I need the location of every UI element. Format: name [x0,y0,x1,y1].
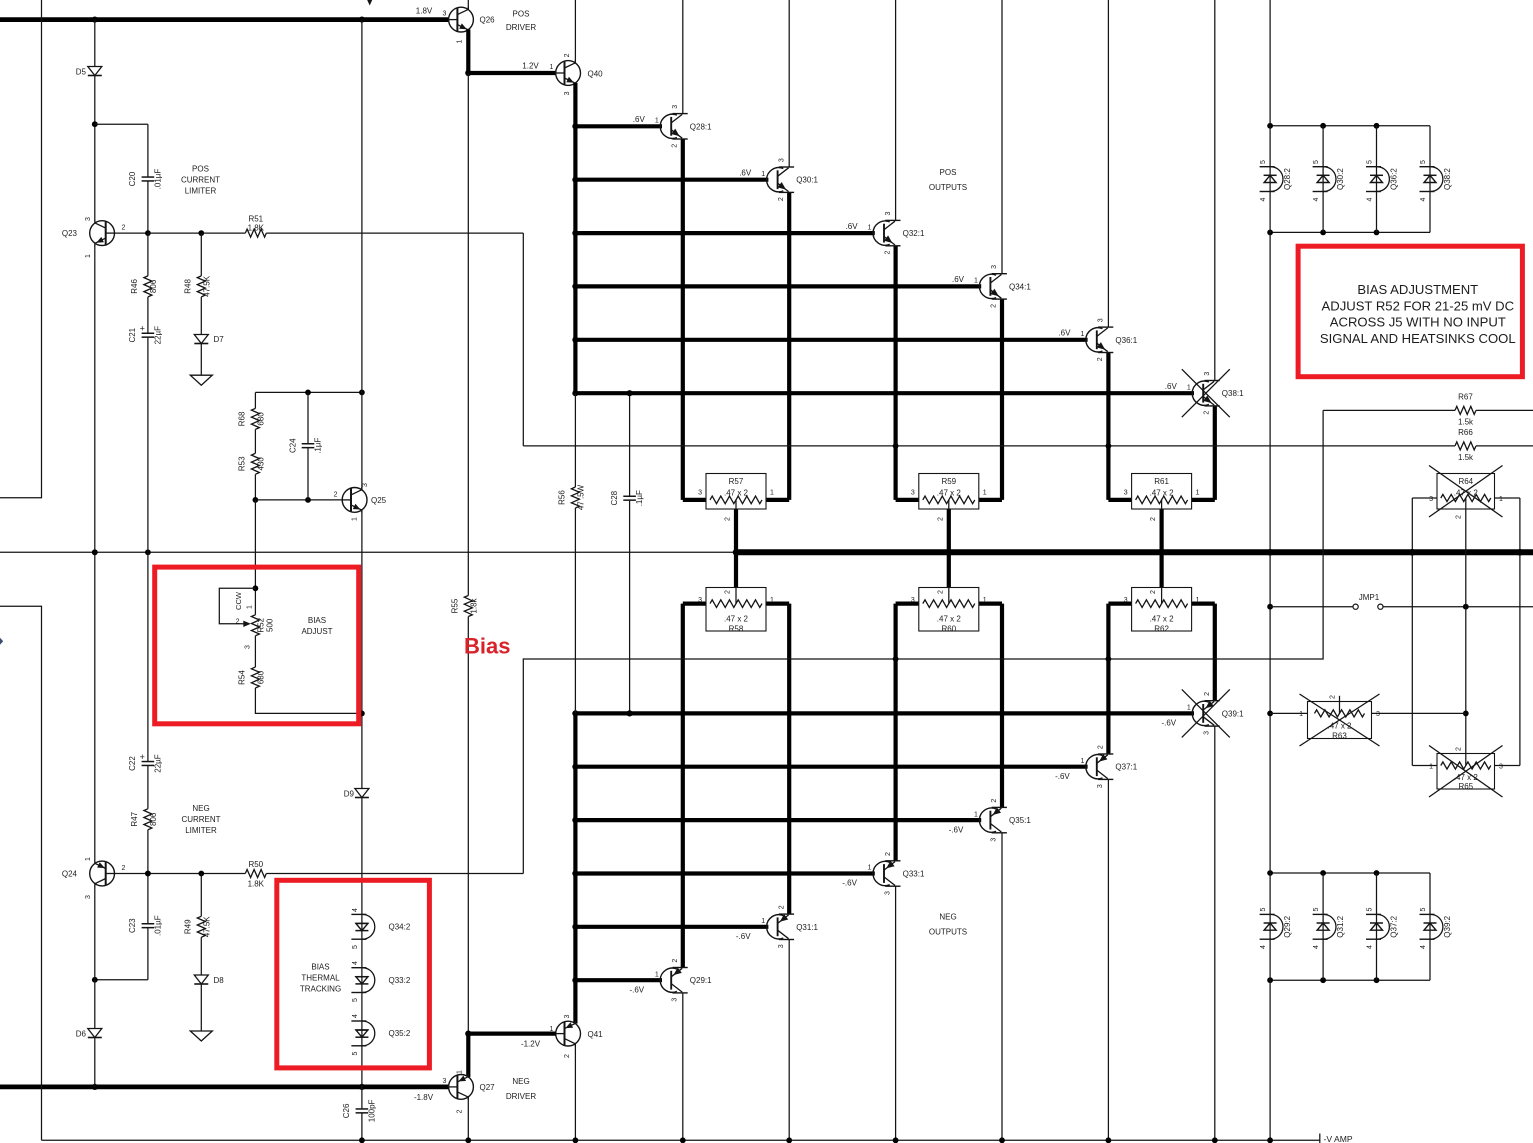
wire output node mid line (thin left part) [0,551,736,553]
svg-text:.1µF: .1µF [635,490,644,506]
thermal diode Q30:2 [1313,166,1328,168]
wire Q39:1 collector column to -V AMP line [1214,726,1216,1140]
svg-text:R67: R67 [1458,392,1473,401]
junction dot at R48 node [198,230,204,236]
wire R48 node to R51 [201,232,523,234]
wire C23 elbow to Q24 emitter column [95,979,148,981]
wire C20 top drop [147,124,149,233]
ground below D7 [190,375,212,385]
svg-text:.6V: .6V [739,168,752,177]
wire left boundary vertical lower (from off-page) [0,606,42,1140]
svg-text:SIGNAL AND HEATSINKS COOL: SIGNAL AND HEATSINKS COOL [1320,331,1516,346]
svg-text:Q28:1: Q28:1 [690,122,712,131]
wire R54 bottom to Q25 emitter column [255,688,362,713]
svg-text:D9: D9 [344,790,355,799]
svg-text:1: 1 [1196,489,1200,496]
svg-text:.1µF: .1µF [314,438,323,454]
svg-text:C21: C21 [128,327,137,342]
wire +V top supply bus [0,17,449,22]
resistor R56 47 .5W [570,487,581,508]
junction dot feeder rung 5 [572,337,578,343]
svg-text:5: 5 [1367,160,1374,164]
svg-text:R66: R66 [1458,428,1473,437]
wire Q37:1 emitter rise [1106,604,1110,754]
svg-text:1: 1 [1187,384,1191,391]
junction dot R64 right frame at output bus [1517,549,1524,556]
svg-text:2: 2 [1455,515,1462,519]
svg-text:.6V: .6V [846,222,859,231]
resistor R53 430 [250,453,261,474]
junction dot R67 sense on Q37:1 emitter column [1106,656,1112,662]
svg-text:5: 5 [1260,907,1267,911]
svg-text:R49: R49 [183,919,192,934]
svg-text:Q39:2: Q39:2 [1443,915,1452,937]
svg-text:2: 2 [778,905,785,909]
svg-text:Q27: Q27 [480,1083,496,1092]
capacitor C20 [145,177,151,182]
red box bias adjustment instructions [1298,246,1522,377]
junction dot C24 bottom [305,497,311,503]
svg-text:1: 1 [655,971,659,978]
svg-text:R50: R50 [248,860,263,869]
wire R66 sense line from R51 loop to right edge [523,445,1533,447]
junction dot NEG feeder rung 5 [572,764,578,770]
svg-text:D8: D8 [214,976,225,985]
svg-text:NEG: NEG [939,912,956,921]
diode D6 [88,1029,102,1038]
svg-text:ADJUST: ADJUST [301,627,332,636]
svg-text:.6V: .6V [633,115,646,124]
svg-text:4: 4 [1367,197,1374,201]
capacitor C24 .1uF column [307,392,309,500]
wire Q30:1 emitter drop [787,192,791,500]
wire column for Q29:2 [1269,873,1271,980]
wire base node to R48 node [148,232,201,234]
svg-text:3: 3 [85,895,92,899]
svg-text:1: 1 [770,489,774,496]
wire top resistor 0 center tap to output bus [734,504,738,552]
junction dot feeder rung 3 [572,230,578,236]
svg-text:4: 4 [1420,945,1427,949]
svg-text:R62: R62 [1154,624,1169,633]
svg-text:R54: R54 [237,670,246,685]
wire R48/D7 column [200,233,202,375]
svg-text:Q36:2: Q36:2 [1390,168,1399,190]
junction dot sense on Q36:1 emitter column [1106,443,1112,449]
svg-text:-.6V: -.6V [949,825,964,834]
svg-text:Q33:2: Q33:2 [389,976,411,985]
svg-text:LIMITER: LIMITER [185,186,217,195]
thermal diode Q36:2 [1366,166,1381,168]
svg-text:4: 4 [1313,945,1320,949]
wire C23 column below Q24 base line [147,874,149,980]
wire Q41 base to corner and down to Q27 [468,1031,556,1035]
wire R64 center tap column [1465,509,1467,754]
svg-text:3: 3 [1124,597,1128,604]
svg-text:4: 4 [1313,197,1320,201]
svg-text:2: 2 [122,865,126,872]
resistor R51 1.8K [245,228,266,239]
wire C20/R46/C21 column upper [147,233,149,552]
junction dot NEG feeder rung 6 [572,710,578,716]
svg-text:1: 1 [761,171,765,178]
junction dot top bus at Q25 collector column [359,17,365,23]
diode D8 [194,975,208,984]
svg-text:806: 806 [149,279,158,293]
svg-text:Q29:2: Q29:2 [1283,915,1292,937]
transistor Q39:1 NEG output [1192,701,1209,725]
junction dot R67 sense on Q33:1 emitter column [893,656,899,662]
resistor R57 .47 x 2 (top row) [706,474,766,510]
svg-text:1: 1 [655,118,659,125]
svg-text:C23: C23 [128,918,137,933]
svg-text:1.8V: 1.8V [416,6,433,15]
svg-text:3: 3 [778,158,785,162]
junction dot diode column at -V AMP line [1267,1137,1273,1143]
svg-text:5: 5 [1420,160,1427,164]
junction dot sense on Q32:1 emitter column [893,443,899,449]
junction dot mid line at x=147.9 [145,549,151,555]
svg-text:1.5k: 1.5k [1458,417,1474,426]
svg-text:3: 3 [1204,372,1211,376]
resistor R68 680 [250,408,261,429]
svg-text:Q25: Q25 [371,496,387,505]
svg-text:4: 4 [352,908,359,912]
off-page connector A [0,638,3,645]
wire Q23 emitter down to mid line and Q24 [94,245,96,861]
svg-text:2: 2 [1330,695,1337,699]
jumper JMP1 open contacts [1353,604,1358,609]
svg-text:-1.2V: -1.2V [521,1039,541,1048]
svg-text:R58: R58 [729,624,744,633]
svg-text:1: 1 [1187,705,1191,712]
svg-text:BIAS ADJUSTMENT: BIAS ADJUSTMENT [1357,282,1478,297]
svg-text:3: 3 [672,105,679,109]
transistor Q41 (PNP) [556,1021,581,1046]
svg-text:1: 1 [247,605,254,609]
pot wiper arrow [243,621,251,627]
svg-text:3: 3 [1097,784,1104,788]
junction dot C26 bottom on -V AMP line [359,1137,365,1143]
wire output bus to bottom resistor 1 center tap [947,552,951,599]
wire R51 right to sense loop corner, down to R66 line [522,233,524,446]
wire output bus (thick right part) [736,549,1533,555]
ground below D8 [190,1031,212,1041]
junction dot base node at x=147.9 [145,230,151,236]
svg-text:.6V: .6V [952,275,965,284]
svg-text:1.8K: 1.8K [248,880,265,889]
svg-text:R61: R61 [1154,477,1169,486]
wire Q26 emitter to Q40 base (1.2V node) [468,29,556,73]
wire NEG rung to Q37:1 [575,765,1087,769]
svg-text:CCW: CCW [234,591,243,610]
resistor R55 1.8k [463,596,474,617]
capacitor C23 .01uF [145,923,151,928]
thermal diode Q28:2 [1260,166,1275,168]
svg-text:R63: R63 [1332,732,1347,741]
svg-text:3: 3 [885,212,892,216]
svg-text:5: 5 [352,998,359,1002]
svg-text:Q33:1: Q33:1 [903,870,925,879]
svg-text:NEG: NEG [192,804,209,813]
svg-text:Q36:1: Q36:1 [1115,336,1137,345]
wire Q38:1 emitter drop [1213,406,1217,500]
svg-text:POS: POS [192,164,209,173]
wire elbow to C20 top [95,123,148,125]
transistor Q37:1 NEG output [1086,755,1103,779]
wire base node to C24 bottom and Q25 base [255,499,342,501]
red box bias thermal tracking [277,880,430,1068]
svg-text:806: 806 [149,812,158,826]
svg-text:Q37:2: Q37:2 [1390,915,1399,937]
svg-text:-.6V: -.6V [629,985,644,994]
transistor Q36:1 POS output [1086,328,1103,352]
svg-text:2: 2 [778,197,785,201]
svg-text:Q40: Q40 [588,69,604,78]
svg-text:.01µF: .01µF [153,169,162,190]
thermal diode Q35:2 [351,1020,366,1022]
svg-text:1: 1 [770,597,774,604]
junction dot R54 return on emitter column [359,711,365,717]
svg-text:3: 3 [911,489,915,496]
wire pot chain down from base node [254,500,256,615]
wire R67 elbow down and across to R50 loop [523,410,1323,873]
wire JMP1 line [1270,606,1533,608]
svg-text:5: 5 [1367,907,1374,911]
wire main diode column x=1270 full height [1269,0,1271,126]
svg-text:3: 3 [698,597,702,604]
svg-text:3: 3 [564,91,571,95]
svg-text:Q23: Q23 [62,229,78,238]
resistor R54 680 [250,667,261,688]
wire POS rung to Q30:1 [575,178,768,182]
svg-text:2: 2 [672,959,679,963]
wire NEG rung to Q33:1 [575,871,874,875]
svg-text:1: 1 [85,254,92,258]
svg-text:2: 2 [884,251,891,255]
svg-text:-1.8V: -1.8V [414,1093,434,1102]
junction dot rail at C24 [305,390,311,396]
svg-text:4: 4 [1260,945,1267,949]
svg-text:1: 1 [974,278,978,285]
svg-text:3: 3 [564,1014,571,1018]
svg-text:DRIVER: DRIVER [506,1092,536,1101]
transistor Q30:1 POS output [767,168,784,192]
svg-text:1: 1 [457,39,464,43]
tick end of -V AMP line [1319,1134,1321,1143]
svg-text:R51: R51 [248,214,263,223]
svg-text:22µF: 22µF [153,754,162,773]
wire Q32:1 collector column [895,0,897,220]
resistor R46 806 [142,276,153,297]
resistor R50 1.8K [245,868,266,879]
wire NEG rung to Q29:1 [575,978,662,982]
svg-text:2: 2 [937,517,944,521]
wire Q28:1 collector column [682,0,684,114]
svg-text:3: 3 [443,1078,447,1085]
svg-text:4: 4 [352,961,359,965]
wire Q32:1 emitter drop [893,246,897,500]
svg-text:4: 4 [1367,945,1374,949]
wire Q25 collector column to +V bus [361,20,363,490]
wire bottom diode group rails [1270,872,1430,874]
wire R68/R53 chain down to base node [254,392,256,500]
svg-text:2: 2 [1455,747,1462,751]
svg-text:Q24: Q24 [62,870,78,879]
cross-out X over Q39:1 (not populated) [1182,689,1230,737]
svg-text:1.8K: 1.8K [248,224,265,233]
wire Q24 emitter down through D6 to -V bus [94,886,96,1087]
wire R56 column (thin) from POS rung6 to NEG rung1 [574,393,576,713]
transistor Q40 [556,61,581,86]
resistor R63 .47 x 2 (not populated) [1270,712,1307,714]
svg-text:1.8k: 1.8k [469,597,478,613]
svg-text:CURRENT: CURRENT [181,815,220,824]
wire Q38:1 collector column [1214,0,1216,381]
off-page arrow at top [367,0,372,6]
junction dot C28 bottom on NEG rung1 [627,710,633,716]
wire Q34:1 emitter drop [1000,299,1004,500]
svg-text:Q29:1: Q29:1 [690,976,712,985]
wire Q29:1 emitter rise [681,604,685,968]
svg-text:2: 2 [236,618,240,625]
svg-text:3: 3 [884,891,891,895]
junction dot NEG feeder rung 4 [572,817,578,823]
wire NEG rung to Q31:1 [575,925,768,929]
wire Q26 collector up [467,0,469,10]
junction dot Q24 base at x=147.9 [145,871,151,877]
svg-text:LIMITER: LIMITER [185,826,217,835]
svg-text:R53: R53 [237,456,246,471]
thermal diode Q31:2 [1313,913,1328,915]
svg-text:R64: R64 [1458,477,1473,486]
junction dot C28 top on rung6 [627,390,633,396]
wire output bus to bottom resistor 0 center tap [734,552,738,599]
svg-text:5: 5 [1313,160,1320,164]
svg-text:3: 3 [362,483,369,487]
svg-text:.01µF: .01µF [153,915,162,936]
svg-text:Q34:1: Q34:1 [1009,282,1031,291]
svg-text:JMP1: JMP1 [1359,593,1380,602]
resistor R66 1.5k [1455,440,1476,451]
svg-text:C26: C26 [342,1103,351,1118]
svg-text:Q37:1: Q37:1 [1115,763,1137,772]
svg-text:Q35:1: Q35:1 [1009,816,1031,825]
svg-text:-.6V: -.6V [1055,772,1070,781]
wire Q30:1 collector column [788,0,790,167]
svg-text:2: 2 [1204,411,1211,415]
wire POS rung to Q32:1 [575,231,874,235]
wire output bus to bottom resistor 2 center tap [1159,552,1163,599]
junction dot bottom bus at D6 column [92,1084,98,1090]
wire Q35:1 emitter rise [1000,604,1004,808]
wire left boundary vertical upper (to off-page) [0,0,42,498]
wire emitter pair into top resistor 2 [1108,498,1131,502]
svg-text:R47: R47 [130,811,139,826]
wire column for Q28:2 [1269,126,1271,233]
svg-text:R68: R68 [237,411,246,426]
svg-text:2: 2 [937,590,944,594]
svg-text:Q31:2: Q31:2 [1336,915,1345,937]
svg-text:2: 2 [725,590,732,594]
svg-text:OUTPUTS: OUTPUTS [929,183,967,192]
svg-text:Q30:2: Q30:2 [1336,168,1345,190]
svg-text:1: 1 [868,224,872,231]
svg-text:4: 4 [1420,197,1427,201]
junction dot pot top / CCW loop [253,585,259,591]
svg-text:-.6V: -.6V [842,879,857,888]
svg-text:2: 2 [991,799,998,803]
svg-text:Q39:1: Q39:1 [1222,709,1244,718]
svg-text:R46: R46 [130,279,139,294]
svg-text:Bias: Bias [464,634,510,659]
svg-text:+: + [140,752,145,762]
svg-text:1: 1 [983,597,987,604]
junction dot feeder rung 6 [572,390,578,396]
resistor R65 .47 x 2 (not populated) [1412,765,1437,767]
transistor Q35:1 NEG output [979,808,996,832]
svg-text:5: 5 [352,1051,359,1055]
svg-text:100pF: 100pF [367,1099,376,1122]
wire POS rung to Q36:1 [575,338,1087,342]
svg-text:680: 680 [256,412,265,426]
svg-text:1: 1 [761,918,765,925]
svg-text:.47 x 2: .47 x 2 [1150,489,1175,498]
wire NEG rung to Q39:1 [575,711,1194,715]
transistor Q27 NEG driver (PNP) [449,1075,474,1100]
diode D5 [88,67,102,76]
junction dot rail at Q25 collector column [359,390,365,396]
wire bottom resistor 0 pins to emitter columns [683,601,706,605]
junction dot C23 elbow on Q24 column [92,977,98,983]
svg-text:1.5k: 1.5k [1458,453,1474,462]
svg-text:2: 2 [885,852,892,856]
svg-text:4: 4 [352,1014,359,1018]
thermal diode Q33:2 [351,967,366,969]
wire NEG rung to Q35:1 [575,818,981,822]
svg-text:2: 2 [1098,745,1105,749]
svg-text:R48: R48 [183,279,192,294]
svg-text:2: 2 [1150,517,1157,521]
wire top resistor 2 center tap to output bus [1159,504,1163,552]
transistor Q25 [342,488,367,513]
wire Q23 base to R51 node [114,232,148,234]
junction dot diode column at output bus [1267,549,1274,556]
svg-text:POS: POS [513,9,530,18]
wire Q25 emitter column down to bias diodes and -V bus [361,510,363,1087]
svg-text:ADJUST R52 FOR 21-25 mV DC: ADJUST R52 FOR 21-25 mV DC [1322,298,1515,313]
svg-text:3: 3 [1124,489,1128,496]
svg-text:1: 1 [1499,496,1503,503]
wire C22/R47 column lower [147,552,149,873]
svg-text:47.5K: 47.5K [202,275,211,297]
junction dot D5 column elbow [92,121,98,127]
svg-text:1: 1 [1080,331,1084,338]
svg-text:5: 5 [1313,907,1320,911]
svg-text:POS: POS [940,168,957,177]
svg-text:CURRENT: CURRENT [181,175,220,184]
svg-text:3: 3 [911,597,915,604]
svg-text:R60: R60 [941,624,956,633]
wire emitter pair into top resistor 1 [896,498,919,502]
thermal diode Q38:2 [1420,166,1435,168]
svg-text:-V AMP: -V AMP [1324,1134,1353,1143]
wire Q36:1 emitter drop [1106,353,1110,500]
svg-text:.47 x 2: .47 x 2 [937,489,962,498]
svg-text:2: 2 [564,1054,571,1058]
svg-text:+: + [140,324,145,334]
wire Q36:1 collector column [1107,0,1109,327]
